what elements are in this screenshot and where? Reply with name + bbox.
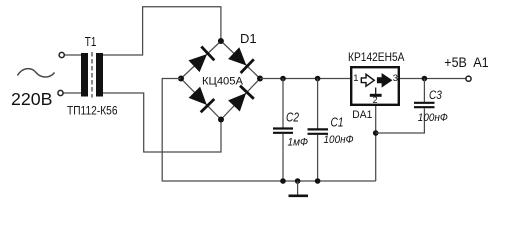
diode VD1 left-top — [189, 47, 214, 72]
wire secondary top to bridge top — [103, 7, 221, 55]
node bottom of bridge — [218, 117, 224, 123]
diode VD3 left-bottom — [190, 88, 215, 113]
node ground junction — [295, 178, 301, 184]
diode VD2 top-right — [229, 48, 254, 73]
regulator hollow arrow — [361, 74, 374, 86]
bridge rectifier D1 frame — [181, 41, 260, 120]
wire bridge plus to regulator input — [260, 78, 350, 80]
transformer T1 — [67, 35, 118, 118]
ground — [289, 181, 309, 196]
AC source tilde — [18, 69, 55, 77]
wire C3 bottom — [376, 109, 425, 134]
svg-text:1: 1 — [353, 73, 358, 84]
svg-text:3: 3 — [393, 73, 398, 84]
wire primary bottom — [64, 92, 82, 94]
terminal output — [466, 76, 471, 81]
wire primary top — [65, 54, 82, 56]
wire pin2 down — [375, 106, 377, 181]
svg-text:C2: C2 — [286, 109, 300, 124]
svg-text:А1: А1 — [473, 54, 489, 70]
node pin2 / C3 bottom junction — [373, 130, 379, 136]
node C3 top junction — [422, 76, 428, 82]
node left of bridge — [178, 76, 184, 82]
svg-text:+5В: +5В — [444, 54, 467, 70]
svg-text:Т1: Т1 — [85, 35, 97, 49]
node C1 top junction — [315, 76, 321, 82]
capacitor C3 — [414, 79, 448, 124]
node right of bridge — [257, 76, 263, 82]
svg-text:С3: С3 — [429, 88, 442, 102]
svg-text:КР142ЕН5А: КР142ЕН5А — [348, 50, 405, 64]
svg-text:D1: D1 — [240, 31, 257, 46]
svg-text:100нФ: 100нФ — [418, 112, 448, 124]
svg-text:220В: 220В — [11, 89, 53, 109]
terminal top input — [59, 52, 64, 57]
node top of bridge — [218, 38, 224, 44]
regulator common-pin bar — [370, 88, 382, 98]
node C2 top junction — [280, 76, 286, 82]
capacitor C1 — [308, 79, 354, 182]
svg-text:DA1: DA1 — [352, 109, 372, 121]
svg-text:1мФ: 1мФ — [288, 137, 309, 149]
diode VD4 bottom-right — [229, 86, 254, 111]
svg-text:100нФ: 100нФ — [324, 134, 354, 146]
svg-text:КЦ405А: КЦ405А — [202, 76, 244, 88]
wire secondary bottom to bridge bottom — [103, 93, 221, 152]
svg-text:ТП112-К56: ТП112-К56 — [67, 104, 118, 118]
op-amp U1 regulator DA1 box — [351, 67, 399, 105]
node C2 bottom junction — [280, 178, 286, 184]
terminal bottom input — [58, 90, 63, 95]
capacitor C2 — [273, 79, 308, 182]
wire output — [400, 78, 466, 80]
node C1 bottom junction — [315, 178, 321, 184]
regulator filled arrow — [378, 74, 392, 86]
svg-text:C1: C1 — [331, 114, 344, 129]
wire bridge minus to bottom rail — [162, 79, 376, 182]
